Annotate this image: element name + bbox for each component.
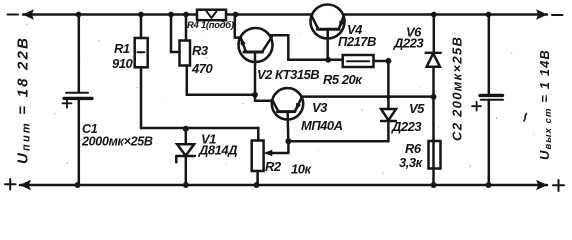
svg-text:V3: V3: [312, 100, 328, 115]
svg-text:R2: R2: [265, 159, 282, 174]
svg-text:V5: V5: [409, 101, 425, 116]
svg-text:V2 КТ315В: V2 КТ315В: [257, 67, 319, 82]
svg-text:П217В: П217В: [338, 34, 376, 49]
svg-text:R3: R3: [192, 43, 209, 58]
svg-text:Д223: Д223: [393, 36, 424, 51]
svg-text:10к: 10к: [291, 162, 312, 177]
svg-text:Д223: Д223: [391, 119, 422, 134]
svg-text:2000мк×25В: 2000мк×25В: [81, 135, 153, 149]
svg-text:С2 200мк×25В: С2 200мк×25В: [450, 36, 465, 141]
svg-text:3,3к: 3,3к: [399, 155, 424, 170]
svg-text:470: 470: [191, 61, 213, 76]
svg-text:Uпит = 18 22В: Uпит = 18 22В: [15, 36, 33, 164]
svg-text:МП40А: МП40А: [301, 118, 343, 133]
svg-text:R6: R6: [405, 141, 422, 156]
svg-text:910: 910: [112, 56, 133, 71]
svg-text:Uвых ст = 1 14В: Uвых ст = 1 14В: [537, 49, 554, 160]
svg-text:Д814Д: Д814Д: [198, 143, 238, 158]
svg-text:R4 1(подб).: R4 1(подб).: [187, 20, 236, 31]
svg-text:R1: R1: [114, 41, 130, 56]
svg-text:R5 20к: R5 20к: [323, 72, 363, 87]
